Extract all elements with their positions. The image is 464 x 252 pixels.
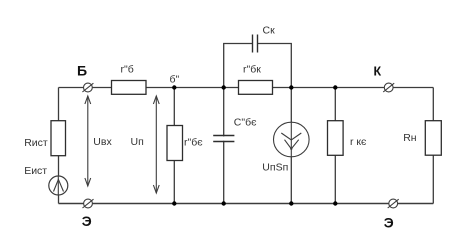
svg-text:r"б: r"б: [121, 63, 134, 75]
svg-text:Uп: Uп: [131, 136, 144, 148]
terminal Э left: [82, 199, 94, 229]
svg-text:б": б": [170, 73, 180, 85]
wire bottom rail Э: [59, 203, 434, 205]
node r*бэ bottom: [172, 201, 176, 205]
node C*бэ top: [222, 85, 226, 89]
resistor r*бэ: [167, 126, 203, 161]
svg-text:К: К: [374, 64, 382, 78]
svg-text:Uвх: Uвх: [93, 136, 112, 148]
node r кэ bottom: [333, 201, 337, 205]
wire C*бэ branch: [223, 88, 225, 204]
svg-text:Rист: Rист: [24, 137, 48, 149]
wire left branch: [58, 88, 60, 204]
svg-text:Б: Б: [77, 63, 87, 79]
wire Ск loop: [224, 44, 292, 88]
terminal Э right: [384, 199, 399, 230]
svg-text:Э: Э: [384, 215, 394, 231]
svg-text:Rн: Rн: [403, 132, 417, 144]
svg-text:r кє: r кє: [350, 136, 367, 148]
node UпSп top: [289, 85, 293, 89]
resistor r*бк: [239, 63, 273, 94]
svg-text:UпSп: UпSп: [262, 161, 288, 173]
node C*бэ bottom: [222, 201, 226, 205]
resistor Rн: [403, 121, 441, 156]
node UпSп bottom: [289, 201, 293, 205]
resistor r*б: [112, 63, 147, 94]
source Еист: [24, 165, 68, 195]
svg-text:r"бє: r"бє: [184, 137, 203, 149]
wire right branch: [432, 88, 434, 204]
svg-text:Еист: Еист: [24, 165, 47, 177]
wire top rail Б to К: [59, 87, 434, 89]
svg-text:Э: Э: [82, 213, 92, 229]
node б": [170, 73, 180, 89]
terminal К: [374, 64, 395, 92]
resistor Rист: [24, 121, 65, 156]
wire r*бэ branch: [173, 88, 175, 204]
svg-text:r"бк: r"бк: [243, 63, 261, 75]
terminal Б: [77, 63, 93, 92]
resistor r кэ: [328, 121, 368, 156]
wire r кэ branch: [334, 88, 336, 204]
voltage arrow Uп: [153, 96, 159, 193]
capacitor C*бэ: [213, 116, 257, 141]
svg-text:C"бє: C"бє: [234, 116, 257, 128]
wire UпSп branch: [290, 88, 292, 204]
svg-text:Ск: Ск: [263, 25, 276, 37]
node r кэ top: [333, 85, 337, 89]
source UпSп dependent current source: [262, 122, 309, 173]
voltage arrow Uвх: [85, 96, 91, 186]
capacitor Ск: [253, 25, 276, 53]
